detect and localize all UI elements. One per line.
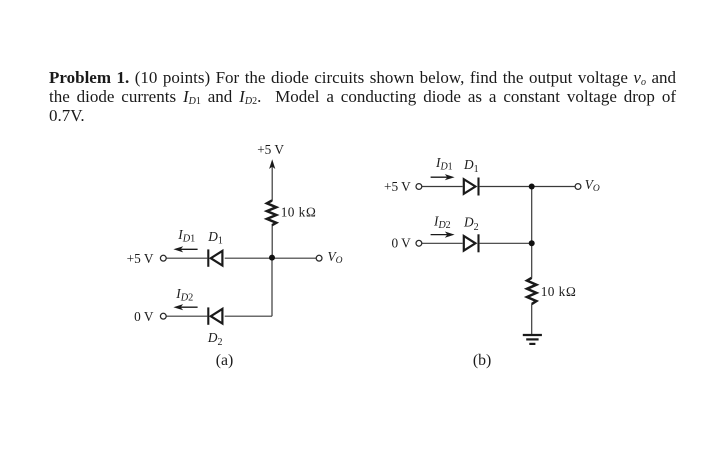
svg-text:D1: D1 (463, 157, 479, 175)
svg-text:0 V: 0 V (391, 236, 411, 251)
svg-text:(b): (b) (473, 352, 491, 369)
svg-text:+5 V: +5 V (384, 179, 411, 194)
svg-text:10 kΩ: 10 kΩ (541, 284, 577, 299)
svg-text:ID1: ID1 (177, 227, 195, 245)
svg-text:+5 V: +5 V (257, 142, 284, 157)
svg-text:10 kΩ: 10 kΩ (281, 205, 317, 220)
svg-text:D2: D2 (207, 330, 223, 348)
svg-text:VO: VO (328, 249, 343, 266)
svg-text:VO: VO (585, 177, 600, 194)
svg-text:ID2: ID2 (433, 213, 451, 231)
svg-text:ID1: ID1 (435, 155, 453, 173)
svg-text:D2: D2 (463, 215, 479, 233)
svg-text:ID2: ID2 (175, 286, 193, 304)
svg-text:+5 V: +5 V (127, 251, 154, 266)
svg-text:(a): (a) (216, 352, 234, 369)
svg-text:D1: D1 (207, 229, 223, 246)
svg-text:0 V: 0 V (134, 309, 154, 324)
